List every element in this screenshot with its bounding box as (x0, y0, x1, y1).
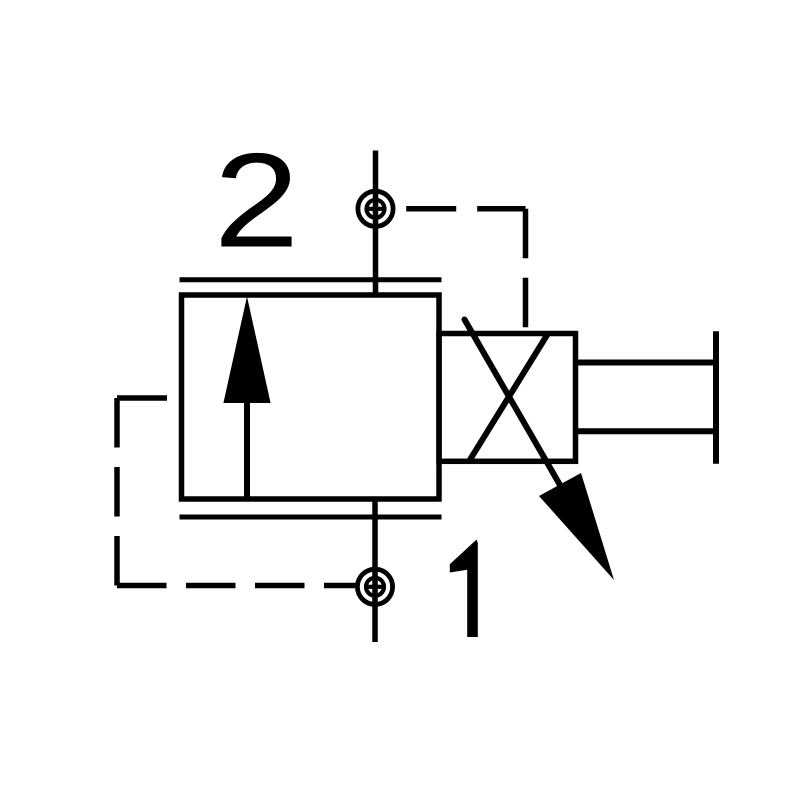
adjustment arrow shaft (465, 320, 561, 486)
adjuster end bar (713, 331, 719, 464)
adjuster top line (576, 360, 717, 366)
port 2 center tick (369, 207, 383, 211)
svg-text:2: 2 (214, 125, 300, 275)
adjuster bottom line (576, 428, 717, 434)
port 1 outer circle (357, 569, 392, 604)
pilot dashed line bottom horizontal (117, 583, 355, 589)
port 1 inner circle (366, 578, 384, 596)
lower parallel line (180, 515, 442, 520)
valve body rectangle (182, 295, 440, 499)
wire port1 vertical (372, 499, 378, 642)
upper parallel line (180, 277, 442, 282)
pilot dashed line left vertical (114, 398, 120, 586)
flow arrow head (223, 297, 270, 404)
port 1 center tick (368, 585, 382, 589)
port 2 inner circle (367, 200, 385, 218)
label 2 (214, 125, 300, 275)
pilot dashed line upper horizontal (395, 206, 525, 212)
wire port2 vertical (373, 151, 379, 296)
spring box diagonal (469, 334, 548, 462)
spring box (439, 334, 576, 462)
adjustment arrow head (539, 473, 614, 580)
label 1 (450, 540, 478, 638)
port 2 outer circle (358, 191, 393, 226)
pilot dashed line top horizontal (117, 395, 182, 401)
pilot dashed line upper vertical (523, 209, 529, 334)
flow arrow shaft (244, 400, 250, 497)
